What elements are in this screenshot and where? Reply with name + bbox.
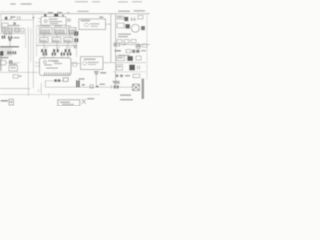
relay bank C (third row pairs)	[41, 49, 70, 52]
capacitor C2 marks	[9, 60, 12, 63]
left components: relay K14 dark block	[0, 51, 4, 56]
label: title text top-left	[10, 3, 31, 4]
label: note x77 y11	[78, 11, 89, 12]
connector X8	[143, 44, 148, 47]
relay K22 dark cluster	[132, 50, 139, 53]
switch S4	[138, 15, 143, 19]
connector X2 cluster	[13, 75, 21, 78]
label: note bottom right 1	[120, 94, 131, 95]
label: T2 note	[79, 78, 85, 79]
wire: vertical bus x31	[30, 28, 32, 62]
lamp HL1 inside U1	[44, 20, 47, 23]
wire: K2 output	[8, 24, 20, 26]
transformer T1 dark blob	[54, 14, 58, 17]
wire: drops to U3	[44, 51, 68, 58]
relay K7 dark	[141, 26, 145, 30]
label: tiny note above S5	[8, 25, 43, 26]
contact S8	[138, 66, 140, 70]
diode VD2 right	[114, 85, 119, 88]
fan M3 circle	[136, 44, 141, 49]
label: note above right columns	[118, 10, 145, 12]
wire: C3 down to bottom rail	[95, 74, 97, 87]
contact S1	[10, 16, 17, 19]
main unit U3 (big rounded box)	[40, 58, 72, 76]
relay K4 dark	[124, 17, 128, 21]
relay K9 dark (x74-78)	[74, 31, 78, 36]
wire: main top bus	[0, 13, 150, 15]
label: note above B2	[9, 64, 17, 65]
relay K18 dark	[127, 56, 133, 61]
label: note right of C3	[100, 72, 106, 74]
wire: tick x38 y89	[38, 89, 40, 92]
wire: U1 left pins	[38, 19, 41, 22]
wire: left vertical drop	[0, 14, 2, 28]
pins of IC bank B	[41, 40, 70, 42]
wire: vertical bus x25	[25, 28, 27, 48]
contact group S3	[131, 17, 137, 21]
label: note near ground	[87, 98, 94, 99]
label: U4 title	[84, 59, 96, 60]
wire: far right vertical	[146, 14, 148, 80]
connector X7 marks	[73, 45, 77, 48]
wire: long bottom rail y94.6	[0, 94, 100, 96]
wire: U2 to bus A	[106, 23, 111, 25]
switch S9 box	[114, 43, 120, 46]
wire: vertical bus x28	[27, 27, 29, 96]
terminal block XT1	[117, 40, 136, 43]
wire: bus line 4 (darker)	[36, 45, 76, 47]
scan shading bottom-left	[0, 48, 12, 57]
label: text inside U3	[44, 60, 62, 68]
wire: tick x111	[110, 85, 112, 89]
wire: corner riser x45	[44, 81, 46, 87]
label: right column notes	[118, 34, 131, 38]
wire: vertical bus x33	[32, 14, 34, 88]
lamp HL2 inside U3	[43, 60, 46, 63]
label: right notes y74-78	[116, 75, 131, 78]
meter P1 bottom-left	[9, 99, 13, 105]
relay K2 coil box	[2, 23, 8, 27]
wire: mid vertical x76	[76, 34, 78, 57]
wire: bottom main rail y87.2	[45, 86, 132, 88]
label: text above IC bank A	[42, 25, 71, 26]
resistor R3 box on rail	[90, 85, 93, 88]
label: note top-right area	[75, 1, 142, 2]
relay K5	[117, 23, 124, 28]
wire: dark heavy stub bottom-left	[0, 46, 19, 48]
scan shading left edge strip	[0, 51, 2, 71]
wire: bus line 2 under bank A	[38, 35, 76, 37]
relay K13	[67, 53, 72, 56]
wire: top-left row link	[1, 19, 33, 21]
terminal box X6 bottom	[58, 100, 80, 106]
wire: U1 right pin	[66, 19, 70, 21]
wire: right horizontal y62.7	[111, 62, 146, 64]
control unit U1 (top middle box)	[41, 17, 66, 26]
relay K9b dark pair	[74, 38, 78, 42]
label: note bottom right 2	[120, 99, 133, 100]
wire: vertical bus x36	[36, 25, 38, 56]
battery GB1 dark double bar	[142, 79, 144, 100]
label: text inside U1	[49, 19, 63, 24]
pins under S5	[4, 33, 12, 35]
relay K3 inside U2	[85, 23, 100, 27]
label: dash on bus	[122, 44, 126, 45]
pins of U3 bottom	[45, 72, 70, 75]
label: U2 title	[81, 20, 90, 21]
wire: right horizontal y71.8	[113, 71, 146, 73]
wire: stubs under bank C	[44, 47, 72, 49]
capacitor C1	[13, 22, 16, 25]
label: note y80 right	[113, 81, 120, 82]
wire: right bus row	[113, 44, 150, 46]
label: right note row2a	[115, 50, 122, 52]
relay K16 pair	[12, 51, 16, 54]
power supply U4 box	[81, 57, 104, 70]
wire: B1 output	[6, 62, 20, 64]
label: note above box U1	[48, 12, 70, 13]
label: note under K14	[1, 57, 9, 58]
IC bank B (second row)	[40, 38, 73, 42]
relay K1 top-left	[5, 17, 8, 20]
label: note above U2 right	[99, 16, 103, 18]
wire: drop x10	[9, 40, 11, 47]
relay K12	[61, 53, 66, 56]
relay K6 dark	[125, 24, 130, 29]
wire: under S5	[0, 32, 25, 34]
contact S5b mark	[9, 39, 12, 41]
label: VD2 note	[114, 82, 121, 83]
sensor B1 box	[0, 60, 6, 65]
motor M1	[131, 24, 139, 32]
resistor R2 on rail	[82, 84, 85, 86]
IC bank A (row of modules x39-76)	[40, 28, 77, 34]
wire: U4 to bus A	[103, 62, 111, 64]
fuse F1 on U1 top edge	[44, 14, 47, 17]
relay K21 box	[126, 50, 131, 53]
connector X5	[63, 78, 68, 82]
fuse F2 small tick on U1 top	[62, 15, 64, 17]
wire: upper stub y80.8	[45, 80, 63, 82]
wire: U3 left inputs	[35, 63, 40, 66]
wire: vertical x41 bottom	[40, 83, 42, 94]
relay K8 dark marks	[2, 36, 13, 40]
sensor B2 box	[9, 66, 18, 71]
wire: right vertical bus B	[115, 14, 117, 87]
wire: right vertical bus A	[110, 14, 112, 63]
motor M2 (boxed X)	[133, 84, 140, 90]
motor control box U2 (top right)	[79, 19, 106, 30]
wire: faint upper rail	[0, 11, 45, 13]
wire: U3 right output	[71, 63, 81, 65]
transformer T2 bars	[76, 80, 80, 87]
connector X4	[133, 74, 140, 77]
node: junction dot on rail	[96, 86, 98, 88]
wire: bottom-left horizontal y88.6	[0, 88, 30, 90]
relay K15 pair	[7, 51, 11, 54]
resistor R1	[17, 17, 20, 20]
relay K17 inside U4	[83, 62, 99, 66]
pins of IC bank A	[41, 29, 75, 33]
wire: short riser x48.7	[48, 93, 50, 98]
terminal X3	[73, 62, 77, 66]
relay K11	[52, 53, 57, 56]
relay K20 dark	[129, 65, 135, 71]
wire: left mid horizontal	[0, 71, 38, 73]
node: junction on x33 bus	[33, 17, 35, 19]
label: dash right	[141, 50, 146, 51]
capacitor C3 below U4	[94, 71, 99, 74]
relay block row above main unit: K10	[43, 53, 48, 56]
label: note above rail right	[100, 84, 106, 85]
terminal X1	[68, 19, 70, 21]
label: faint marks y55	[118, 55, 130, 56]
paper background	[0, 0, 150, 106]
wire: bus line 1 under bank A	[38, 34, 76, 36]
label: note right of K8	[14, 37, 20, 38]
right column: switch S2	[117, 16, 124, 19]
label: bottom-left note	[1, 100, 8, 102]
switch S7	[136, 56, 141, 60]
wire: bus line 3	[38, 42, 76, 44]
relay K19	[117, 65, 123, 70]
left relay row: contact block S5	[2, 28, 25, 32]
ground symbol (cross)	[82, 99, 86, 104]
diode VD1 on stub	[54, 79, 60, 82]
pins of S5	[3, 28, 19, 31]
right column row2: switch S6	[117, 56, 125, 61]
wire: inter-row stubs	[44, 34, 70, 49]
